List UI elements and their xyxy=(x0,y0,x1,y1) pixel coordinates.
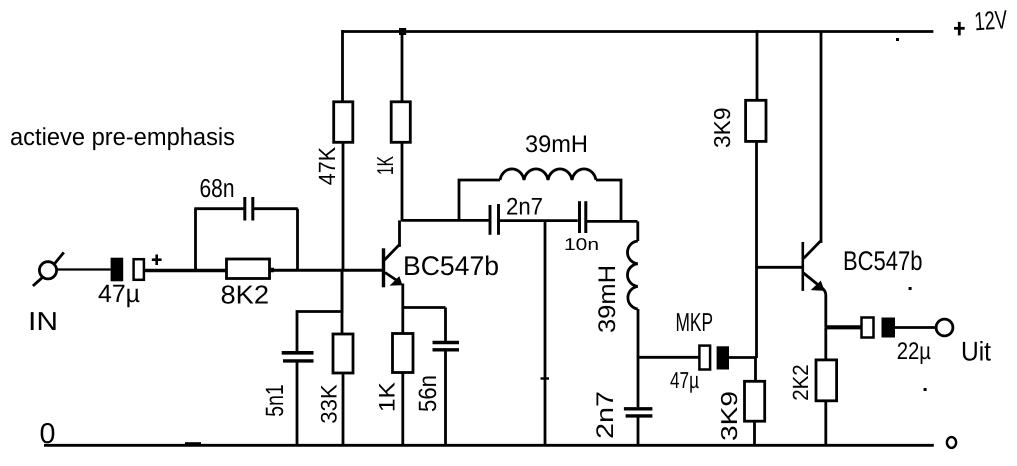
wire Q2 emitter down xyxy=(822,288,826,327)
wire bias vertical xyxy=(755,141,758,358)
capacitor C 22u black plate xyxy=(882,318,896,338)
wire base node down jog xyxy=(297,269,342,352)
inductor L 39mH humps xyxy=(500,169,596,180)
wire 68n top right xyxy=(254,207,298,210)
svg-text:47µ: 47µ xyxy=(98,280,140,308)
label 0 right xyxy=(947,437,956,448)
resistor R 47K xyxy=(334,102,353,143)
inductor L 39mH loop left leg xyxy=(459,180,500,220)
svg-text:2n7: 2n7 xyxy=(506,194,543,221)
svg-text:actieve pre-emphasis: actieve pre-emphasis xyxy=(10,124,235,151)
wire R 8K2 nub xyxy=(270,268,275,273)
capacitor C 56n plates xyxy=(433,341,460,344)
wire 3K9 bottom to ground xyxy=(753,421,756,445)
wire collector node horizontal left xyxy=(402,219,489,222)
label +12V xyxy=(954,4,1009,36)
wire 1K top leg xyxy=(401,30,404,102)
capacitor C 47u input white plate xyxy=(134,259,144,280)
wire ground overlap stroke xyxy=(185,442,201,445)
svg-text:12V: 12V xyxy=(973,4,1008,36)
net +12V top rail xyxy=(342,30,933,33)
transistor Q1 collector stroke xyxy=(385,220,400,260)
svg-text:10n: 10n xyxy=(564,235,599,254)
svg-text:3K9: 3K9 xyxy=(709,108,735,149)
wire between 2n7 and 10n xyxy=(500,219,578,222)
wire 56n to ground xyxy=(444,350,447,445)
transistor Q1 base bar xyxy=(382,248,385,287)
input terminal circle xyxy=(39,262,56,279)
resistor R 3K9 top xyxy=(746,100,766,141)
svg-text:MKP: MKP xyxy=(676,307,714,337)
wire bias to 3K9 bottom xyxy=(754,358,757,382)
resistor R 2K2 xyxy=(816,360,837,401)
resistor R 8K2 xyxy=(227,259,270,279)
transistor Q2 emitter arrowhead xyxy=(813,282,824,290)
resistor R 3K9 bottom xyxy=(745,381,765,421)
net 0 ground rail xyxy=(44,444,934,447)
wire tick on ground leg xyxy=(541,377,550,379)
wire 2K2 to ground xyxy=(824,401,827,445)
input slash upper xyxy=(55,252,64,263)
wire 47K bottom leg xyxy=(342,142,345,270)
svg-text:1K: 1K xyxy=(374,382,399,412)
capacitor C 10n plates xyxy=(578,201,581,233)
transistor Q1 emitter stroke xyxy=(385,273,400,283)
wire 33K to ground xyxy=(342,373,345,446)
svg-text:0: 0 xyxy=(40,418,56,450)
wire input to C 47u xyxy=(57,268,111,270)
capacitor C 68n plates xyxy=(243,197,246,221)
capacitor C 22u white plate xyxy=(862,318,874,338)
svg-text:56n: 56n xyxy=(414,375,442,412)
svg-text:5n1: 5n1 xyxy=(261,384,289,416)
svg-text:68n: 68n xyxy=(200,173,235,203)
resistor R 1K emitter xyxy=(393,334,414,373)
wire MKP to bias line xyxy=(729,356,757,359)
wire 8K2 to Q1 base xyxy=(273,269,383,272)
input slash lower xyxy=(33,277,43,286)
wire emitter node to output cap (thick) xyxy=(826,325,862,329)
svg-text:BC547b: BC547b xyxy=(843,246,923,276)
svg-text:47µ: 47µ xyxy=(670,367,699,393)
capacitor C MKP black plate xyxy=(717,346,729,369)
svg-text:2K2: 2K2 xyxy=(788,364,813,401)
wire C 47u to R 8K2 (base line, thick) xyxy=(144,269,227,272)
inductor L2 39mH vertical humps xyxy=(627,241,637,309)
wire node to C MKP xyxy=(638,356,699,359)
wire 22u to output terminal xyxy=(895,326,936,329)
wire Q2 base xyxy=(756,266,802,269)
svg-text:22µ: 22µ xyxy=(897,338,931,365)
stray dot 3 xyxy=(924,388,927,391)
svg-text:IN: IN xyxy=(28,306,58,336)
stray dot 2 xyxy=(909,287,912,290)
resistor R 33K xyxy=(333,334,353,373)
wire 68n top left xyxy=(194,207,243,210)
wire 2n7 bottom to ground xyxy=(637,416,640,446)
svg-text:39mH: 39mH xyxy=(594,265,621,333)
wire node to long vertical ground leg xyxy=(544,220,547,445)
wire 3K9 top leg xyxy=(756,30,759,100)
wire 5n1 to ground xyxy=(296,361,299,446)
svg-text:BC547b: BC547b xyxy=(403,251,499,281)
transistor Q2 base bar xyxy=(801,242,804,291)
wire 56n top leg xyxy=(444,308,447,343)
resistor R 1K xyxy=(391,102,410,143)
wire 1K bottom leg xyxy=(401,142,404,221)
wire emitter to R 2K2 xyxy=(824,327,827,360)
capacitor C MKP white plate xyxy=(699,346,710,370)
transistor Q2 emitter stroke xyxy=(804,273,823,288)
capacitor C 5n1 plates xyxy=(282,351,314,355)
wire emitter node horizontal to 56n xyxy=(403,306,446,309)
label polarity plus xyxy=(152,255,162,266)
wire base node to R 33K xyxy=(341,269,344,334)
svg-text:Uit: Uit xyxy=(961,337,991,367)
svg-text:3K9: 3K9 xyxy=(716,391,742,441)
svg-text:8K2: 8K2 xyxy=(221,280,270,310)
wire L2 to 2n7 bottom xyxy=(637,309,640,407)
wire R 1K to ground xyxy=(401,373,404,447)
svg-text:2n7: 2n7 xyxy=(592,391,619,439)
capacitor C 2n7 bottom plates xyxy=(624,407,653,410)
svg-text:1K: 1K xyxy=(372,156,398,175)
capacitor C 68n right leg xyxy=(296,209,299,269)
stray dot 1 xyxy=(896,38,899,41)
wire emitter to R 1K xyxy=(401,308,404,335)
wire Q1 emitter down xyxy=(401,284,404,309)
inductor L 39mH right leg xyxy=(596,180,621,221)
transistor Q1 emitter arrowhead xyxy=(392,278,402,285)
wire 47K top leg xyxy=(341,30,344,102)
transistor Q2 collector stroke xyxy=(804,32,822,259)
node junction dot on rail xyxy=(399,28,406,35)
capacitor C 47u input electrolytic black plate xyxy=(111,258,124,282)
capacitor C 2n7 series plates xyxy=(489,205,492,235)
wire corner into vertical inductor xyxy=(636,221,639,241)
svg-text:47K: 47K xyxy=(314,147,340,186)
output terminal circle xyxy=(936,319,953,336)
capacitor C 68n left leg xyxy=(194,209,197,269)
svg-text:39mH: 39mH xyxy=(525,131,588,158)
svg-text:33K: 33K xyxy=(316,384,341,423)
wire after 10n to corner xyxy=(587,220,638,223)
